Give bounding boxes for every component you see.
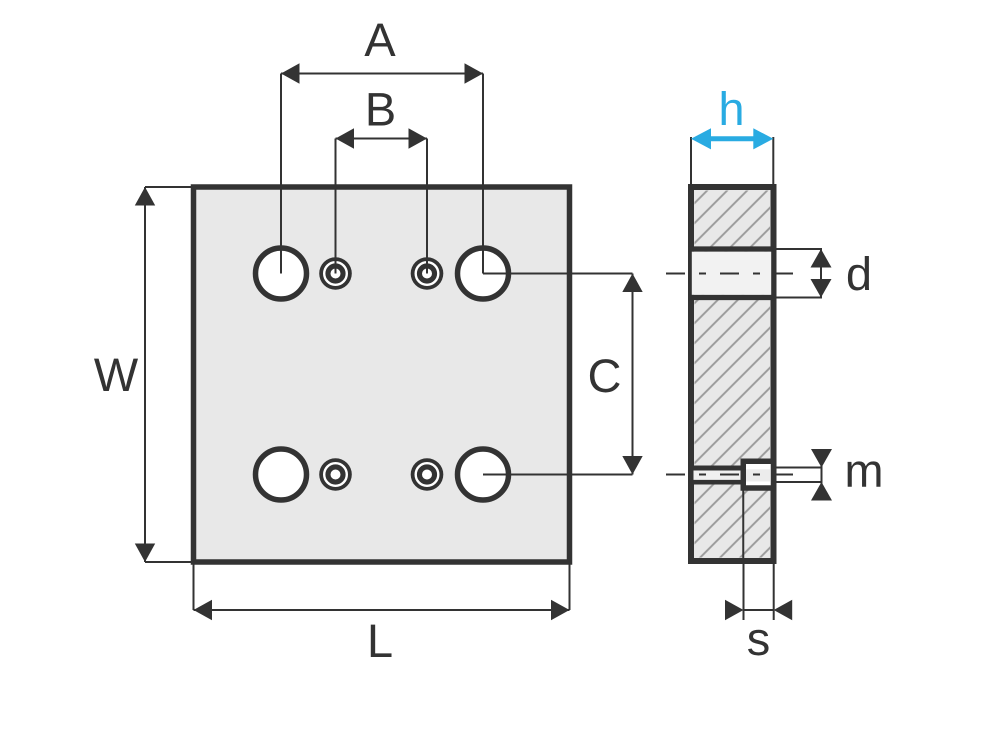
centerline upper bore <box>666 273 799 275</box>
dimension B extension line left <box>335 139 337 274</box>
dimension s arrow left (pointing right) <box>725 600 744 620</box>
dimension d extension line top <box>777 248 823 250</box>
plate front view body <box>194 187 570 562</box>
dimension L extension line right <box>569 562 571 610</box>
label L <box>371 625 392 657</box>
dimension B arrow right <box>409 128 428 148</box>
dimension s arrow right (pointing left) <box>774 600 793 620</box>
dimension B extension line right <box>426 139 428 274</box>
dimension L extension line left <box>193 562 195 610</box>
hole top-right large <box>458 248 509 299</box>
dimension h arrow right (blue) <box>753 128 773 149</box>
dimension A extension line right <box>482 74 484 274</box>
dimension d extension line bottom <box>777 297 823 299</box>
dimension C line <box>632 274 634 475</box>
dimension m line <box>821 449 823 501</box>
label W <box>94 359 138 391</box>
side view hatching <box>695 191 771 558</box>
slot groove bottom edge <box>694 480 744 485</box>
label d <box>848 256 869 291</box>
hole bottom-right large <box>458 449 509 500</box>
hole bottom-left large <box>256 449 307 500</box>
dimension B arrow left <box>336 128 355 148</box>
hole top-left large <box>256 248 307 299</box>
dimension C arrow top <box>622 274 642 293</box>
label C <box>590 359 620 392</box>
side view body <box>691 187 774 561</box>
slot far wall band inside counterbore <box>746 469 771 481</box>
dimension B line <box>336 138 428 140</box>
dimension s extension line right <box>773 564 775 620</box>
dimension L line <box>194 609 570 611</box>
label A <box>364 24 395 56</box>
dimension m arrow upper (pointing down) <box>811 449 832 468</box>
dimension L arrow right <box>551 600 570 620</box>
dimension A extension line left <box>280 74 282 274</box>
dimension W arrow top <box>135 187 155 206</box>
dimension d arrow up <box>811 249 832 268</box>
dimension A arrow right <box>465 63 484 83</box>
hole top-right small <box>411 257 444 290</box>
dimension C extension line bottom <box>483 474 633 476</box>
slot edge line below counterbore <box>742 491 744 559</box>
dimension d arrow down <box>811 279 832 298</box>
slot groove top edge <box>694 466 744 471</box>
hole top-left small <box>319 257 352 290</box>
dimension C arrow bottom <box>622 456 642 475</box>
dimension W arrow bottom <box>135 544 155 563</box>
dimension W line <box>144 187 146 562</box>
dimension L arrow left <box>194 600 213 620</box>
dimension C extension line top <box>483 273 633 275</box>
dimension m extension line bottom <box>776 481 822 483</box>
dimension W extension line bottom <box>145 561 194 563</box>
hole bottom-left small <box>319 458 352 491</box>
bore band bottom edge <box>688 295 777 300</box>
bore band top edge <box>688 246 777 251</box>
dimension A line <box>281 73 483 75</box>
dimension W extension line top <box>145 186 194 188</box>
dimension h arrow left (blue) <box>691 128 711 149</box>
centerline lower slot <box>666 474 799 476</box>
dimension h line (blue) <box>707 136 757 141</box>
bore band (d hole) opening <box>692 252 771 295</box>
dimension s extension line left <box>743 564 745 620</box>
label B <box>369 93 394 125</box>
slot groove (m) opening <box>694 471 742 481</box>
dimension m extension line top <box>776 467 822 469</box>
dimension h extension line left <box>690 137 692 185</box>
hole bottom-right small <box>411 458 444 491</box>
label m <box>848 461 881 486</box>
dimension A arrow left <box>281 63 300 83</box>
dimension s line <box>744 609 774 611</box>
label s <box>748 630 768 656</box>
dimension d line <box>820 249 822 298</box>
dimension h extension line right <box>772 137 774 185</box>
dimension m arrow lower (pointing up) <box>811 482 832 501</box>
label h (blue) <box>722 91 742 125</box>
slot counterbore square <box>743 461 773 488</box>
